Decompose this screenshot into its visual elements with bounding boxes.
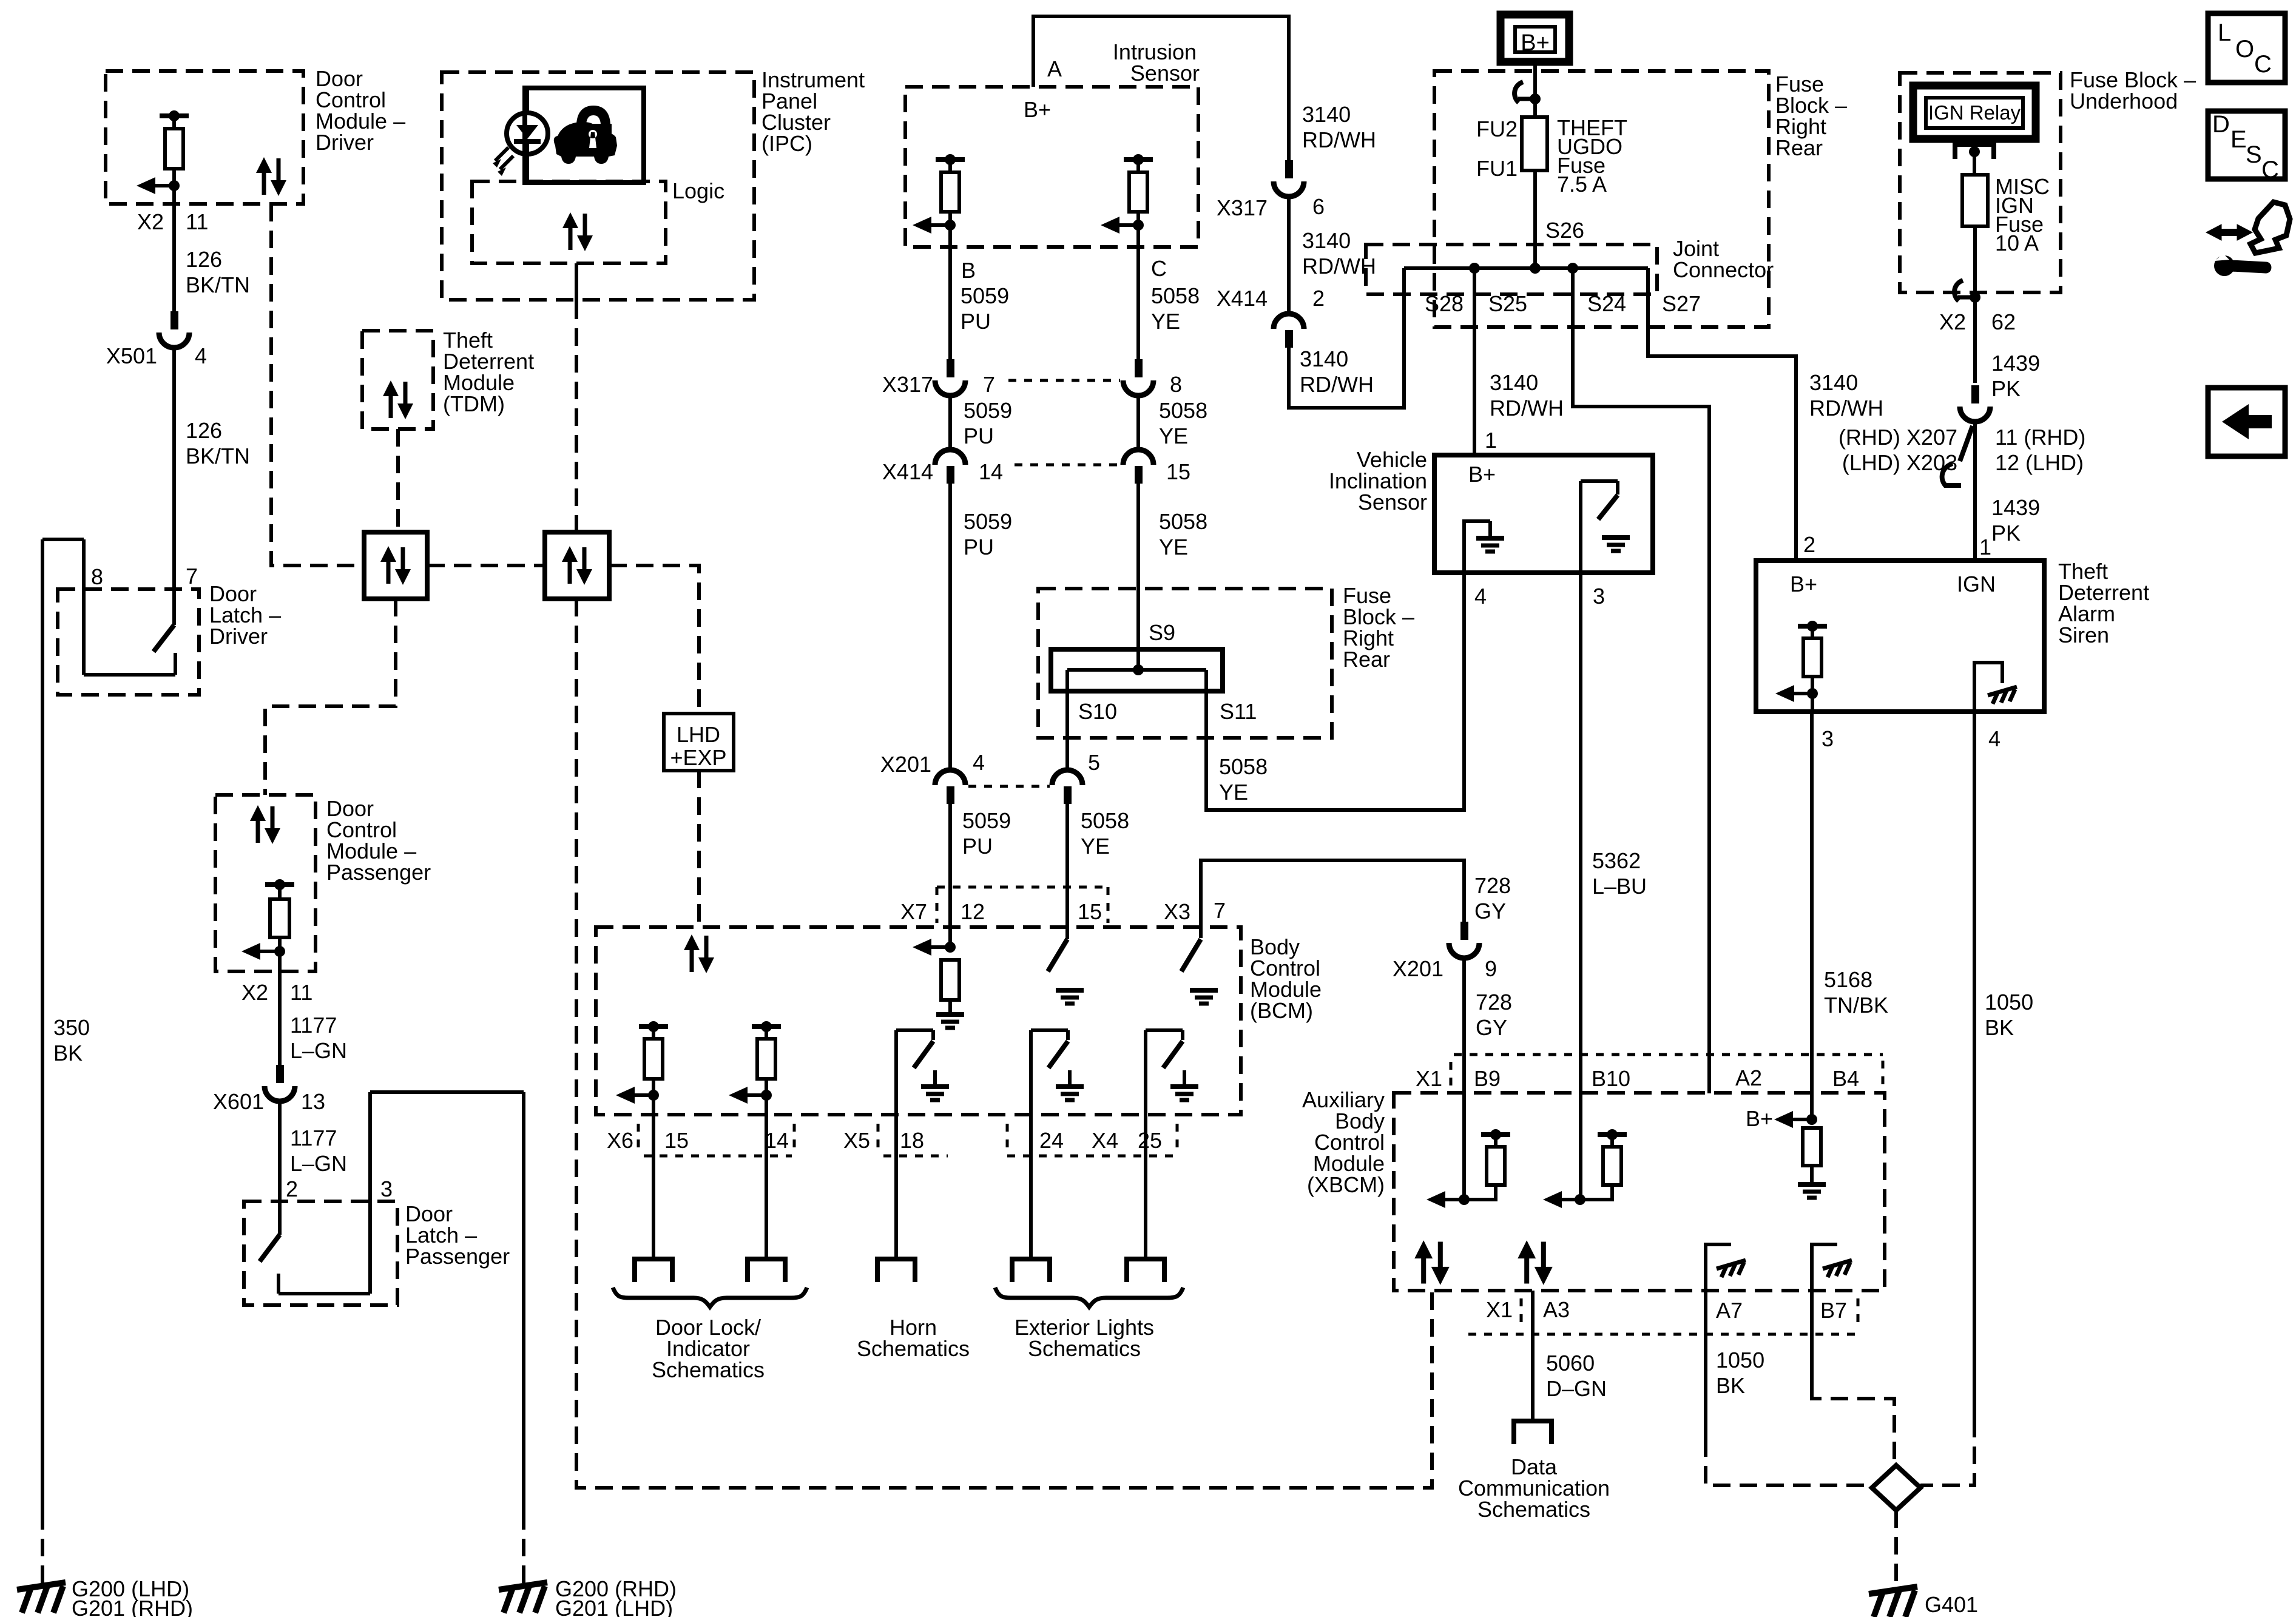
wire 5058 YE to S9	[1136, 483, 1140, 668]
svg-text:B+: B+	[1024, 97, 1051, 122]
svg-text:S26: S26	[1545, 218, 1584, 243]
connector row X1 A3 A7 B7	[1468, 1333, 1858, 1336]
resistor internal intrusion B	[936, 157, 965, 162]
module box Instrument Panel Cluster IPC	[442, 72, 754, 300]
svg-text:BK/TN: BK/TN	[186, 444, 250, 468]
svg-text:5: 5	[1088, 750, 1100, 775]
svg-text:YE: YE	[1151, 309, 1180, 334]
svg-text:5060: 5060	[1546, 1351, 1595, 1376]
wire 3140 RD/WH mid	[1287, 197, 1291, 312]
svg-text:8: 8	[91, 564, 103, 589]
fuse THEFT UGDO 7.5A	[1522, 117, 1547, 170]
wire dashed TDM to splice box	[396, 429, 400, 532]
bidirectional logic symbol XBCM data	[1518, 1240, 1553, 1285]
svg-text:Driver: Driver	[209, 624, 268, 649]
wire fuse to X2-62	[1973, 226, 1977, 383]
wire B7 solid stub	[1810, 1291, 1814, 1391]
option box LHD +EXP	[664, 714, 734, 771]
svg-text:3: 3	[1593, 584, 1605, 609]
svg-text:Schematics: Schematics	[652, 1357, 765, 1382]
splice box serial data 1	[364, 532, 427, 599]
module box Theft Deterrent Module TDM	[362, 331, 433, 429]
svg-text:C: C	[2254, 51, 2272, 78]
connector row X1 B9 B10 A2 B4	[1454, 1053, 1883, 1056]
svg-text:Logic: Logic	[672, 178, 724, 203]
module box Fuse Block - Underhood	[1900, 73, 2061, 292]
brace exterior lights schematics	[995, 1288, 1183, 1307]
wire dashed splice2 right to LHD+EXP	[609, 565, 699, 714]
svg-text:5059: 5059	[962, 808, 1011, 833]
wire 1050 BK from A7	[1704, 1291, 1707, 1439]
svg-text:(TDM): (TDM)	[443, 391, 505, 416]
svg-text:5058: 5058	[1151, 283, 1200, 308]
svg-text:Driver: Driver	[316, 130, 374, 155]
svg-text:A2: A2	[1735, 1065, 1762, 1090]
svg-text:13: 13	[301, 1089, 325, 1114]
module box Door Latch - Driver	[58, 589, 199, 695]
ground internal XBCM A7	[1706, 1244, 1731, 1291]
bidirectional arrows splice 2	[562, 546, 592, 585]
connector X201 pin 5	[1052, 770, 1082, 785]
arrow output intrusion B	[913, 217, 931, 234]
relay output terminal	[1955, 144, 1994, 159]
svg-text:RD/WH: RD/WH	[1490, 396, 1564, 420]
svg-text:X1: X1	[1416, 1066, 1442, 1091]
svg-text:5059: 5059	[964, 509, 1012, 534]
ground internal inclination left	[1464, 521, 1490, 573]
svg-text:B10: B10	[1592, 1066, 1630, 1091]
connector X414 pin 15	[1123, 450, 1153, 465]
svg-text:IGN Relay: IGN Relay	[1928, 101, 2021, 124]
icon box LOC	[2208, 13, 2285, 83]
svg-text:PU: PU	[964, 424, 994, 448]
svg-text:IGN: IGN	[1957, 572, 1996, 596]
svg-text:(LHD) X203: (LHD) X203	[1842, 450, 1957, 475]
icon box back arrow	[2208, 388, 2285, 456]
svg-text:X201: X201	[1393, 956, 1443, 981]
wire dashed to ground G200 LHD	[41, 1512, 44, 1585]
wire dashed A7 to splice diamond	[1706, 1439, 1872, 1485]
svg-text:A7: A7	[1716, 1298, 1743, 1323]
icon box DESC	[2208, 111, 2285, 179]
wire door lock 2 to schematic	[765, 1095, 768, 1259]
wire dashed LHD+EXP to BCM	[697, 771, 701, 927]
svg-text:62: 62	[1991, 309, 2016, 334]
wire door lock 1 to schematic	[652, 1095, 655, 1259]
svg-text:Rear: Rear	[1343, 647, 1390, 672]
svg-text:1177: 1177	[290, 1013, 337, 1038]
svg-text:X414: X414	[1217, 286, 1268, 311]
svg-text:18: 18	[900, 1128, 924, 1153]
svg-text:126: 126	[186, 247, 222, 272]
svg-text:PK: PK	[1991, 376, 2021, 401]
svg-text:PK: PK	[1991, 521, 2021, 545]
wire exterior lights 24 to schematic	[1029, 1121, 1033, 1259]
wire exterior lights 25 to schematic	[1144, 1121, 1147, 1259]
svg-text:3: 3	[380, 1176, 393, 1201]
wire S10 down	[1065, 670, 1069, 768]
wire dashed splice1 down to DCM-passenger	[265, 599, 396, 795]
svg-text:X5: X5	[843, 1128, 870, 1153]
svg-text:Rear: Rear	[1775, 135, 1823, 160]
svg-text:350: 350	[53, 1015, 90, 1040]
indicator box security telltale	[525, 88, 644, 183]
wire horn to schematic	[894, 1121, 898, 1259]
svg-text:YE: YE	[1159, 424, 1188, 448]
svg-text:GY: GY	[1474, 899, 1506, 923]
svg-text:7: 7	[983, 372, 995, 397]
svg-text:S25: S25	[1488, 291, 1527, 316]
switch internal BCM X3 7	[1181, 939, 1201, 971]
wire 5059 PU from pin B	[948, 225, 952, 359]
svg-text:X2: X2	[241, 980, 268, 1005]
svg-text:3140: 3140	[1302, 228, 1351, 253]
svg-text:Underhood: Underhood	[2070, 89, 2178, 113]
power feed B+ flag	[1501, 15, 1569, 62]
svg-text:S24: S24	[1587, 291, 1626, 316]
arrow input BCM pin 12	[913, 939, 931, 956]
svg-text:15: 15	[1166, 459, 1190, 484]
bidirectional arrows splice 1	[380, 546, 411, 585]
connector row X7 dotted box	[937, 886, 1108, 889]
LED emission arrows	[495, 147, 513, 169]
svg-text:G201 (RHD): G201 (RHD)	[72, 1596, 193, 1617]
wire dashed to ground G200 RHD	[522, 1512, 525, 1585]
module box Intrusion Sensor	[905, 87, 1198, 247]
svg-text:1050: 1050	[1716, 1348, 1764, 1372]
svg-text:X4: X4	[1092, 1128, 1118, 1153]
LED indicator symbol	[525, 88, 529, 113]
svg-text:8: 8	[1170, 372, 1182, 397]
svg-text:X2: X2	[1939, 309, 1966, 334]
svg-text:B4: B4	[1832, 1066, 1859, 1091]
svg-text:PU: PU	[961, 309, 991, 334]
svg-text:14: 14	[765, 1128, 789, 1153]
svg-text:6: 6	[1312, 194, 1325, 219]
svg-text:X317: X317	[882, 372, 933, 397]
connector X601	[276, 1065, 284, 1083]
svg-text:PU: PU	[962, 834, 993, 859]
svg-text:X317: X317	[1217, 195, 1268, 220]
wire 126 BK/TN to door latch	[172, 348, 176, 625]
svg-text:7.5 A: 7.5 A	[1557, 172, 1607, 197]
bus joint connector	[1404, 266, 1648, 270]
arrow output DCM-passenger	[241, 943, 260, 960]
car with padlock icon	[554, 122, 617, 164]
resistor internal BCM pin 12	[941, 960, 959, 1000]
terminal bracket ext lights 2	[1127, 1259, 1164, 1282]
fuse holder clip FU2	[1514, 82, 1523, 103]
svg-text:2: 2	[1803, 532, 1815, 557]
svg-text:C: C	[2261, 157, 2279, 183]
svg-text:BK: BK	[1985, 1015, 2014, 1040]
svg-text:PU: PU	[964, 535, 994, 559]
connector X201 pin 9	[1460, 922, 1468, 940]
svg-text:X3: X3	[1164, 899, 1190, 924]
wire 5058 YE from pin C	[1136, 225, 1140, 359]
svg-text:G401: G401	[1925, 1592, 1978, 1617]
svg-text:L–BU: L–BU	[1592, 874, 1647, 899]
wire pin A to fuse	[1033, 16, 1289, 166]
svg-text:7: 7	[1214, 898, 1226, 923]
svg-text:3140: 3140	[1490, 370, 1538, 395]
svg-text:15: 15	[664, 1128, 689, 1153]
resistor internal BCM door lock 1	[639, 1024, 668, 1029]
connector X201 pin 4	[935, 770, 965, 785]
wire latch passenger pin3 to ground	[370, 1090, 524, 1094]
wire to siren pin 1	[1973, 422, 1977, 561]
resistor internal DCM-passenger	[265, 882, 294, 887]
svg-text:X1: X1	[1486, 1297, 1513, 1322]
switch internal BCM exterior lights X4-25	[1144, 1030, 1147, 1121]
resistor pullup XBCM B10	[1598, 1132, 1627, 1137]
arrow input XBCM B4	[1774, 1111, 1793, 1128]
arrow output BCM door lock 2	[729, 1087, 748, 1104]
wire 3140 RD/WH to S28	[1289, 268, 1404, 408]
wire 728 GY BCM X3-7 loop	[1201, 860, 1464, 938]
ground G200 LHD / G201 RHD	[17, 1582, 66, 1613]
svg-text:C: C	[1151, 256, 1167, 281]
terminal bracket data communication	[1514, 1421, 1551, 1444]
arrow output siren	[1775, 685, 1794, 702]
resistor internal siren	[1798, 624, 1827, 629]
svg-text:B+: B+	[1468, 462, 1496, 487]
bidirectional logic symbol XBCM serial	[1414, 1240, 1450, 1285]
terminal bracket ext lights 1	[1012, 1259, 1050, 1282]
svg-text:Connector: Connector	[1673, 257, 1774, 282]
svg-text:4: 4	[195, 343, 207, 368]
svg-text:B: B	[961, 258, 976, 283]
wire 5060 D-GN	[1531, 1291, 1535, 1420]
connector X317 pin 7	[947, 359, 954, 377]
svg-text:12: 12	[961, 899, 985, 924]
svg-text:A3: A3	[1543, 1297, 1570, 1322]
switch internal BCM horn X5-18	[894, 1030, 898, 1121]
svg-text:5058: 5058	[1081, 808, 1129, 833]
svg-text:E: E	[2230, 126, 2247, 153]
svg-text:2: 2	[286, 1176, 298, 1201]
wire fuse to splice S26	[1533, 170, 1537, 268]
wire S27 3140 RD/WH to siren	[1648, 268, 1796, 561]
wire S25 3140 RD/WH to inclination sensor	[1473, 268, 1476, 455]
svg-text:11 (RHD): 11 (RHD)	[1995, 425, 2085, 450]
ground G200 RHD / G201 LHD	[499, 1582, 547, 1613]
svg-text:YE: YE	[1159, 535, 1188, 559]
svg-text:X501: X501	[106, 343, 157, 368]
svg-text:S: S	[2246, 141, 2262, 168]
module box Theft Deterrent Alarm Siren	[1756, 561, 2044, 712]
svg-text:(BCM): (BCM)	[1250, 998, 1313, 1023]
module box Fuse Block - Right Rear S9	[1038, 589, 1332, 738]
joint connector S9 S10 S11	[1051, 649, 1223, 691]
svg-text:728: 728	[1476, 990, 1512, 1014]
svg-text:2: 2	[1312, 286, 1325, 311]
svg-text:B9: B9	[1474, 1066, 1501, 1091]
svg-text:LHD: LHD	[677, 722, 720, 747]
svg-text:5058: 5058	[1159, 509, 1207, 534]
joint connector box upper	[1366, 245, 1657, 294]
arrow output intrusion C	[1101, 217, 1119, 234]
svg-text:S11: S11	[1220, 699, 1257, 724]
connector X317 pin 6	[1285, 160, 1293, 178]
wire dashed diamond to G401	[1894, 1510, 1898, 1589]
wire dashed splice2 down big loop to XBCM	[576, 599, 1432, 1488]
wire 5059 PU lower	[948, 483, 952, 768]
svg-text:BK/TN: BK/TN	[186, 272, 250, 297]
svg-text:X201: X201	[880, 752, 931, 777]
svg-text:4: 4	[1474, 584, 1487, 609]
wire pin 11 DCM-driver	[172, 186, 176, 311]
wire 350 BK feed	[42, 538, 84, 541]
svg-text:YE: YE	[1081, 834, 1110, 859]
svg-text:5058: 5058	[1159, 398, 1207, 423]
svg-text:FU2: FU2	[1476, 116, 1518, 141]
bidirectional logic symbol BCM	[684, 934, 714, 973]
svg-text:X601: X601	[213, 1089, 264, 1114]
svg-text:4: 4	[973, 750, 985, 775]
svg-text:14: 14	[979, 459, 1003, 484]
svg-text:X6: X6	[607, 1128, 633, 1153]
svg-text:1050: 1050	[1985, 990, 2033, 1014]
svg-text:5168: 5168	[1824, 967, 1872, 992]
svg-text:15: 15	[1078, 899, 1102, 924]
svg-text:(XBCM): (XBCM)	[1307, 1172, 1385, 1197]
wire IPC logic stub	[575, 263, 578, 302]
svg-text:11: 11	[290, 980, 312, 1005]
svg-text:Schematics: Schematics	[857, 1336, 970, 1361]
module box Auxiliary Body Control Module XBCM	[1394, 1093, 1885, 1291]
switch Door Latch Passenger	[260, 1235, 280, 1261]
svg-text:10 A: 10 A	[1995, 231, 2039, 255]
wire 5059 PU to BCM	[948, 803, 952, 947]
switch internal BCM exterior lights 24	[1029, 1030, 1033, 1121]
svg-text:D–GN: D–GN	[1546, 1376, 1607, 1401]
relay IGN Relay	[1913, 86, 2036, 139]
wire 5058 YE to BCM	[1065, 803, 1069, 939]
resistor internal BCM door lock 2	[752, 1024, 781, 1029]
svg-text:5058: 5058	[1219, 754, 1268, 779]
svg-text:3140: 3140	[1809, 370, 1858, 395]
resistor XBCM B4 to ground	[1803, 1128, 1821, 1166]
svg-text:+EXP: +EXP	[670, 745, 726, 770]
svg-text:B7: B7	[1820, 1298, 1847, 1323]
wire S24 3140 RD/WH	[1573, 268, 1709, 1093]
module box Door Control Module - Driver	[106, 71, 303, 204]
ground internal siren pin 4	[1974, 663, 2002, 712]
svg-text:RD/WH: RD/WH	[1300, 372, 1374, 397]
svg-text:YE: YE	[1219, 780, 1248, 805]
wire B+ to fuse FU2	[1533, 62, 1537, 117]
wire 1050 BK siren pin 4	[1973, 712, 1976, 1420]
svg-text:5362: 5362	[1592, 848, 1641, 873]
svg-text:S10: S10	[1078, 699, 1117, 724]
svg-text:4: 4	[1988, 726, 2001, 751]
svg-text:3140: 3140	[1300, 346, 1348, 371]
svg-text:B+: B+	[1746, 1106, 1773, 1131]
arrow output BCM door lock 1	[616, 1087, 635, 1104]
wire dashed 1050 BK to splice diamond	[1920, 1420, 1974, 1485]
svg-text:1: 1	[1485, 428, 1497, 453]
module box Body Control Module BCM	[596, 927, 1241, 1115]
ground internal BCM pin12	[948, 1000, 952, 1014]
dotted link X414 row	[1015, 464, 1120, 467]
svg-text:X7: X7	[900, 899, 927, 924]
svg-text:BK: BK	[53, 1041, 83, 1065]
wire 5059 PU mid	[948, 396, 952, 450]
bidirectional logic symbol IPC	[562, 212, 593, 251]
svg-text:S28: S28	[1425, 291, 1464, 316]
wire pin 11 DCM-passenger	[278, 951, 282, 1065]
wire siren pin 3	[1811, 694, 1814, 712]
wire S11 down	[1204, 670, 1208, 810]
svg-text:Siren: Siren	[2058, 623, 2109, 647]
arrow input XBCM B10	[1543, 1191, 1562, 1208]
svg-text:L: L	[2218, 19, 2231, 46]
wire 5362 L-BU inclination pin3 to XBCM B10	[1579, 573, 1582, 1200]
bidirectional logic symbol TDM	[383, 380, 413, 419]
svg-text:B+: B+	[1790, 572, 1817, 596]
terminal bracket horn	[877, 1259, 915, 1282]
svg-text:S27: S27	[1662, 291, 1701, 316]
svg-text:GY: GY	[1476, 1015, 1507, 1040]
arrow output DCM-driver	[137, 177, 155, 194]
icon tool double arrow wrench	[2206, 224, 2252, 240]
module box Door Control Module - Passenger	[215, 795, 316, 971]
connector lever X203	[1960, 426, 1973, 461]
svg-text:RD/WH: RD/WH	[1809, 396, 1883, 420]
svg-text:O: O	[2235, 36, 2254, 62]
wire dashed IPC to serial data	[575, 302, 578, 532]
svg-text:TN/BK: TN/BK	[1824, 993, 1888, 1018]
ground internal XBCM B7	[1812, 1244, 1837, 1291]
logic box IPC	[472, 181, 666, 263]
connector X317 pin 8	[1135, 359, 1143, 377]
svg-text:1: 1	[1979, 535, 1991, 559]
svg-text:3140: 3140	[1302, 102, 1351, 127]
splice diamond	[1872, 1465, 1920, 1510]
svg-text:L–GN: L–GN	[290, 1038, 347, 1063]
ground G401	[1869, 1587, 1917, 1617]
connector X414 pin 14	[935, 450, 965, 465]
svg-text:Sensor: Sensor	[1130, 61, 1200, 86]
connector X414 pin 2	[1274, 314, 1304, 329]
svg-text:9: 9	[1485, 956, 1497, 981]
svg-text:12 (LHD): 12 (LHD)	[1995, 450, 2084, 475]
switch internal BCM pin 15	[1048, 939, 1067, 971]
switch Door Latch Driver	[154, 625, 174, 652]
svg-text:24: 24	[1039, 1128, 1064, 1153]
svg-text:5059: 5059	[961, 283, 1009, 308]
svg-text:25: 25	[1138, 1128, 1162, 1153]
svg-text:(IPC): (IPC)	[761, 131, 812, 156]
svg-text:1439: 1439	[1991, 495, 2040, 520]
svg-text:126: 126	[186, 418, 222, 443]
resistor pullup XBCM B9	[1481, 1132, 1510, 1137]
connector row X6 X5 X4 dotted boxes	[637, 1124, 640, 1152]
wire dashed DCM-driver serial data	[271, 204, 364, 565]
switch internal inclination right	[1579, 481, 1582, 573]
terminal bracket door lock 2	[748, 1259, 785, 1282]
module box Fuse Block - Right Rear upper	[1434, 71, 1769, 327]
arrow input XBCM B9	[1427, 1191, 1445, 1208]
splice box serial data 2	[545, 532, 609, 599]
bidirectional logic symbol DCM-passenger	[250, 805, 280, 844]
module box Door Latch - Passenger	[244, 1201, 397, 1305]
svg-text:X2: X2	[137, 209, 164, 234]
dotted link X317 row	[1008, 379, 1120, 382]
svg-text:Sensor: Sensor	[1358, 490, 1427, 515]
terminal bracket door lock 1	[635, 1259, 672, 1282]
